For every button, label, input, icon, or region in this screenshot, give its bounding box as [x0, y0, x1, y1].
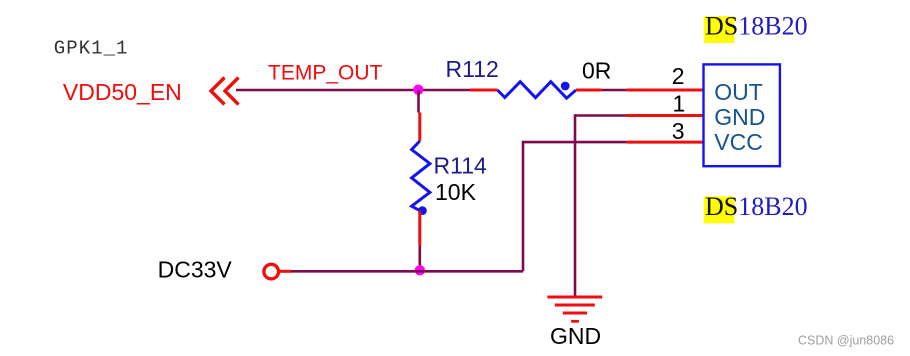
svg-text:DS18B20: DS18B20: [705, 192, 808, 221]
svg-text:TEMP_OUT: TEMP_OUT: [268, 61, 383, 84]
comment DS18B20 top : highlight: [704, 16, 735, 43]
pin 3 of U (VCC): [626, 141, 703, 144]
wire TEMP_OUT horizontal: [236, 89, 470, 92]
wire R114 to junction B: [418, 246, 421, 270]
port chevron <<: [211, 78, 239, 105]
wire pin 1 horizontal: [575, 114, 626, 117]
wire GND vertical to ground: [574, 114, 577, 297]
svg-text:GND: GND: [714, 104, 765, 130]
svg-text:VCC: VCC: [714, 129, 763, 155]
resistor R112 pin-1 dot: [561, 82, 570, 91]
ground symbol bar 4: [571, 320, 579, 323]
resistor R112 body: [497, 82, 576, 99]
svg-text:DC33V: DC33V: [158, 257, 233, 283]
wire VCC vertical: [522, 141, 525, 271]
resistor R112 right pin: [576, 89, 601, 92]
resistor R114 bottom pin: [418, 211, 421, 246]
comment DS18B20 bottom : highlight: [704, 197, 735, 224]
component body U1 DS18B20: [704, 64, 780, 166]
wire pin 3 horizontal: [523, 141, 626, 144]
svg-text:CSDN @jun8086: CSDN @jun8086: [798, 334, 894, 348]
ground symbol bar 1: [547, 296, 602, 299]
svg-text:VDD50_EN: VDD50_EN: [63, 79, 182, 105]
svg-text:0R: 0R: [582, 58, 611, 84]
svg-text:DS18B20: DS18B20: [705, 12, 808, 41]
svg-text:1: 1: [673, 90, 686, 116]
terminal circle DC33V: [264, 264, 279, 279]
wire R112 to pin 2: [601, 89, 626, 92]
svg-text:3: 3: [672, 118, 685, 144]
svg-text:GPK1_1: GPK1_1: [54, 38, 129, 60]
svg-text:R114: R114: [434, 152, 487, 178]
junction node B (DC33V / R114): [415, 265, 425, 275]
ground symbol bar 3: [563, 312, 587, 315]
resistor R114 body: [412, 141, 430, 211]
junction node A (TEMP_OUT / R114): [413, 85, 423, 95]
wire junction A down to R114: [417, 90, 420, 113]
pin 2 of U (OUT): [626, 89, 703, 92]
resistor R114 top pin: [418, 113, 421, 142]
svg-text:2: 2: [672, 63, 685, 89]
resistor R114 pin-1 dot: [418, 206, 427, 215]
terminal stub red: [279, 270, 291, 273]
svg-text:OUT: OUT: [714, 79, 763, 105]
ground symbol bar 2: [555, 304, 595, 307]
resistor R112 left pin: [470, 89, 497, 92]
pin 1 of U (GND): [626, 114, 703, 117]
svg-text:R112: R112: [446, 56, 499, 82]
svg-text:10K: 10K: [435, 179, 477, 205]
svg-text:GND: GND: [550, 323, 601, 349]
wire DC33V horizontal: [291, 270, 523, 273]
